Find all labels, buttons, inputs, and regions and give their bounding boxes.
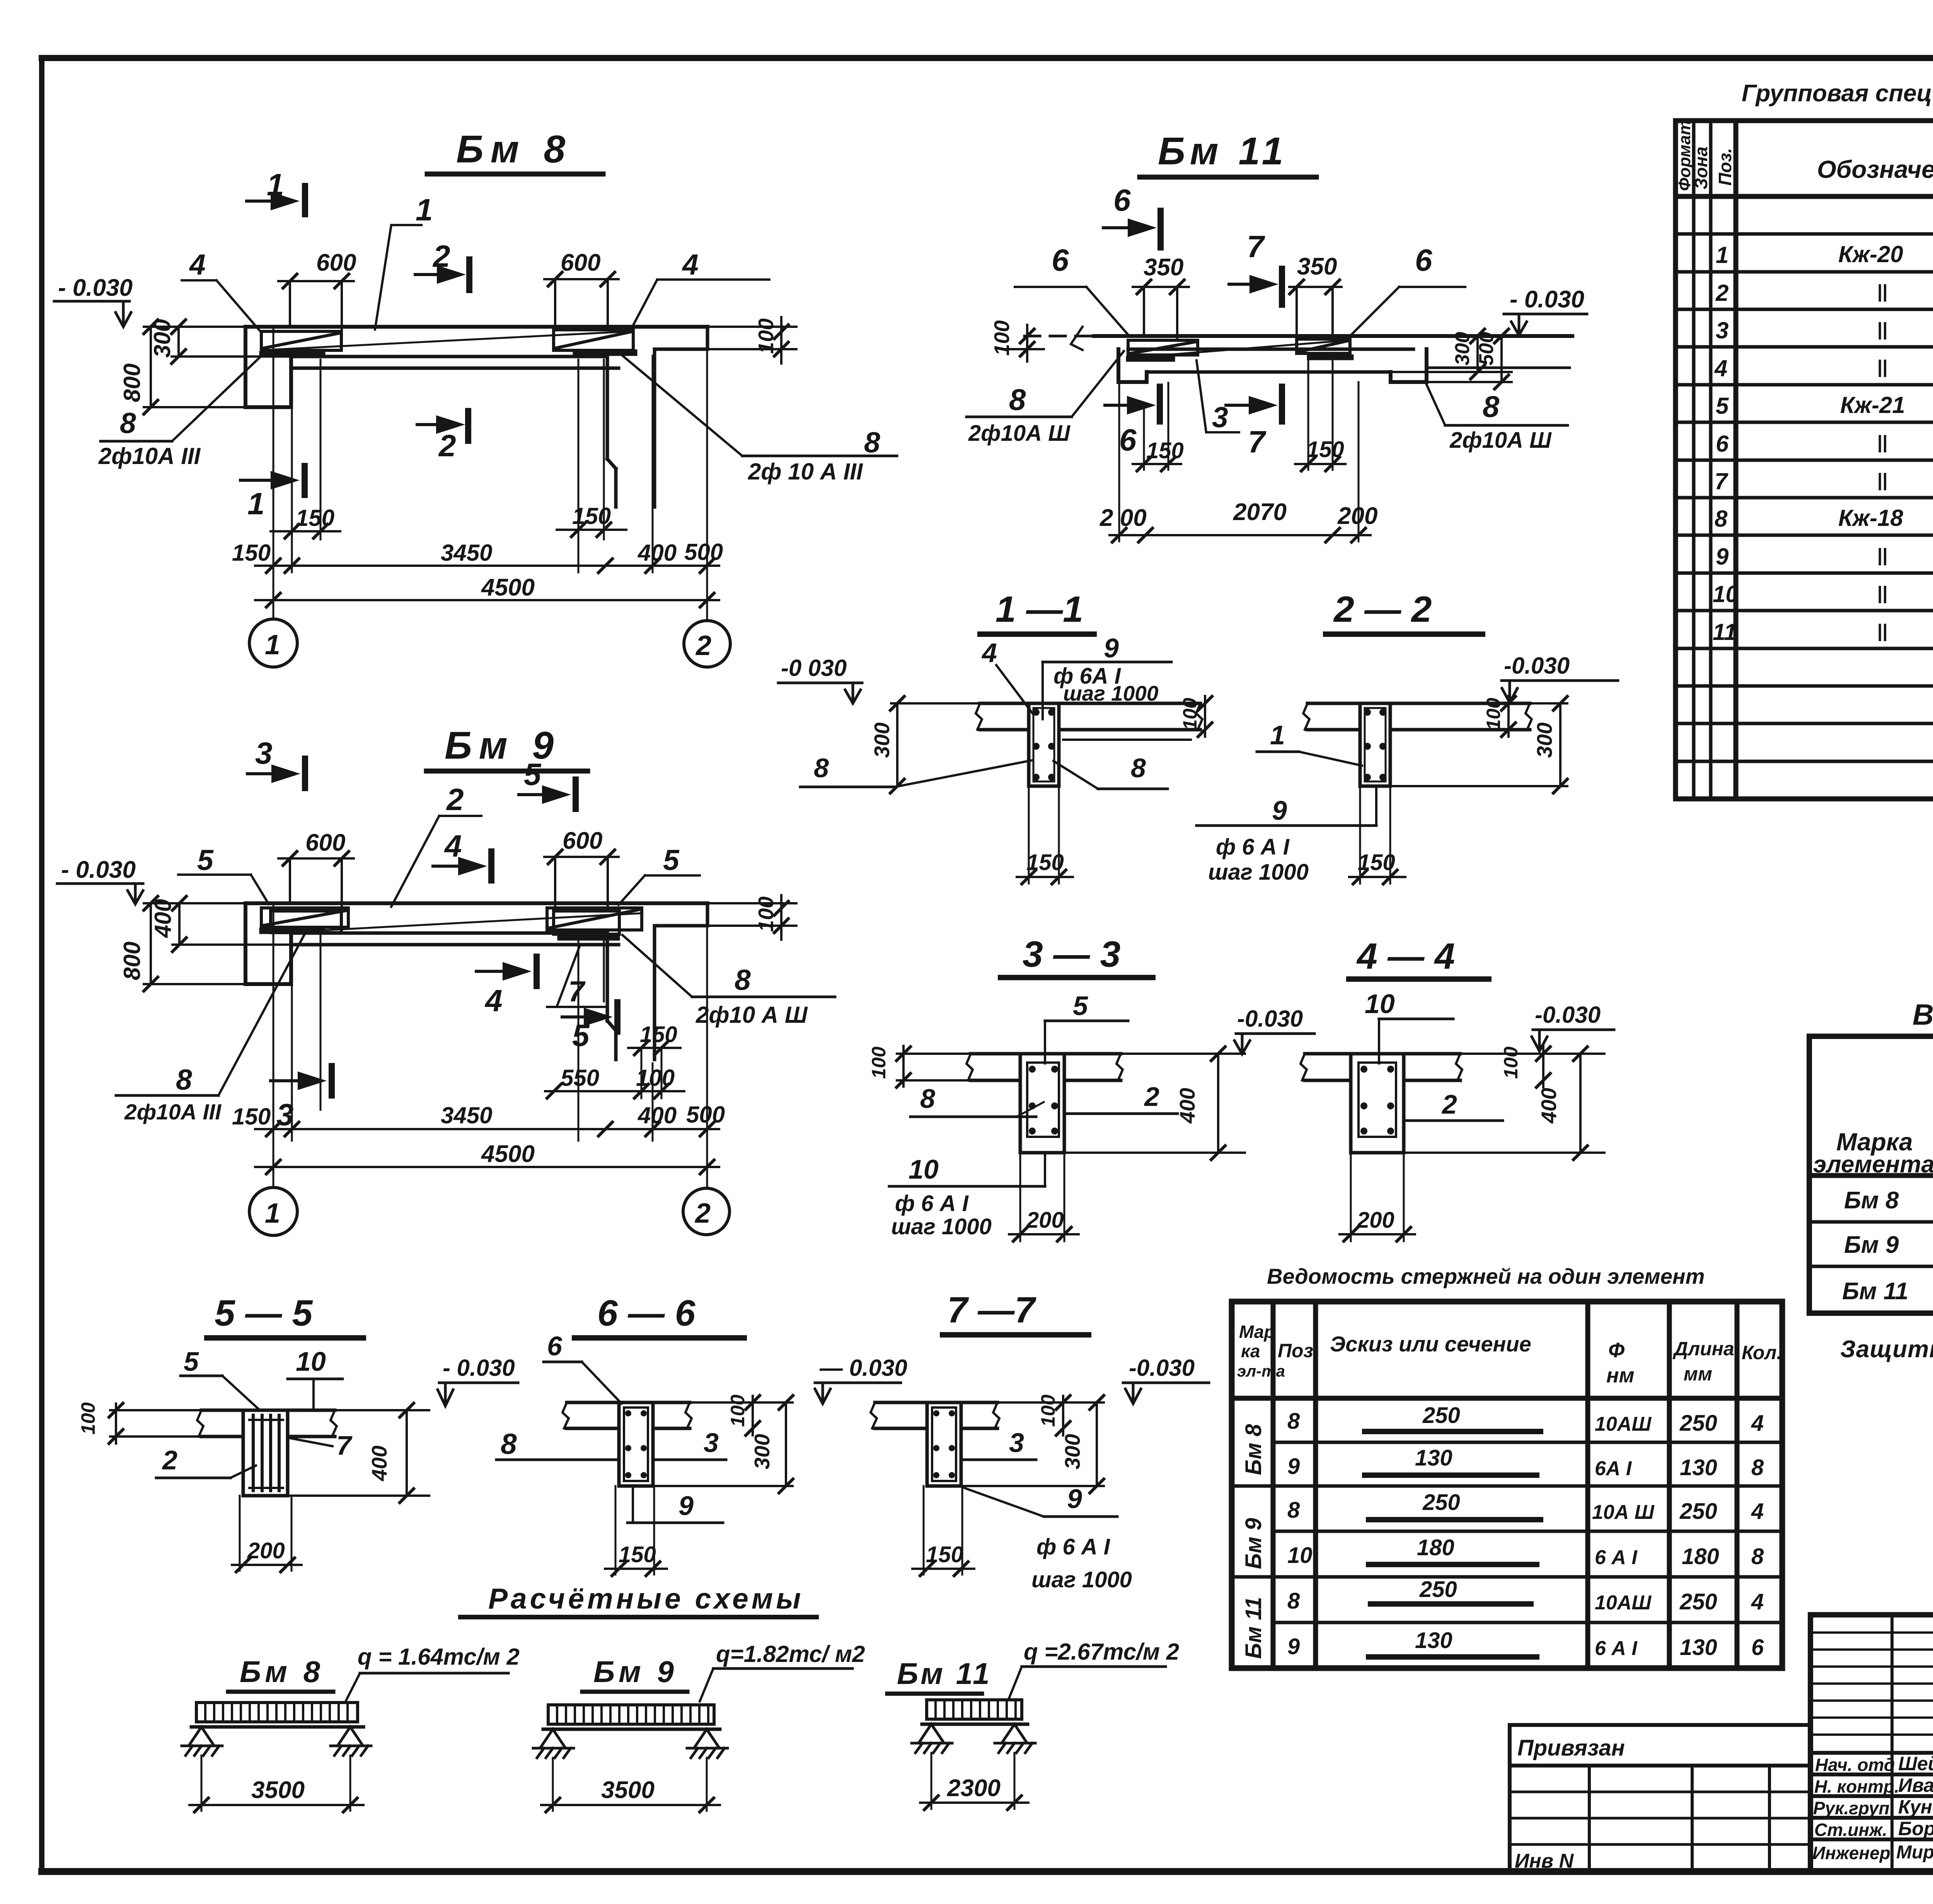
svg-text:3 — 3: 3 — 3 [1023, 934, 1120, 975]
title block texts [1812, 1629, 1933, 1877]
steel table header texts [1813, 1037, 1933, 1178]
svg-text:180: 180 [1682, 1544, 1719, 1569]
beam Bm9 section mark 4 top [433, 829, 491, 880]
svg-text:Рук.груп: Рук.груп [1813, 1798, 1890, 1818]
svg-text:8: 8 [920, 1083, 935, 1114]
section 4-4 dim 100 rotated [1500, 1046, 1550, 1087]
beam Bm8 dim 800 left rotated [119, 320, 245, 414]
svg-text:8: 8 [864, 426, 880, 459]
svg-text:5: 5 [524, 757, 542, 792]
section 5-5 dim 400 rotated [288, 1403, 429, 1503]
scheme Bm11 hatched bar [922, 1700, 1028, 1724]
section 1-1 label 8 left [800, 753, 1033, 787]
section 7-7 rebar dots [933, 1410, 955, 1478]
svg-text:2: 2 [694, 1198, 711, 1229]
svg-text:||: || [1877, 357, 1887, 377]
svg-text:6А I: 6А I [1595, 1457, 1632, 1480]
svg-text:200: 200 [1357, 1208, 1394, 1233]
svg-text:10: 10 [1287, 1543, 1313, 1568]
svg-text:2: 2 [1715, 280, 1728, 306]
svg-text:ф 6 А I: ф 6 А I [1036, 1534, 1111, 1559]
section 2-2 label 1 [1257, 720, 1362, 766]
svg-text:8: 8 [1483, 389, 1500, 423]
svg-text:100: 100 [990, 320, 1014, 356]
svg-text:400: 400 [1537, 1088, 1561, 1124]
svg-text:250: 250 [1419, 1577, 1457, 1602]
svg-text:2ф10 А Ш: 2ф10 А Ш [695, 1002, 808, 1028]
svg-text:Кж-21: Кж-21 [1840, 392, 1905, 418]
beam Bm8 elevation mark -0.030 [54, 275, 133, 327]
section 1-1 label 4 [981, 638, 1033, 713]
svg-text:11: 11 [1713, 619, 1737, 645]
svg-text:150: 150 [572, 503, 611, 529]
svg-text:100: 100 [1483, 698, 1504, 730]
svg-text:Ведомость стержней на один эле: Ведомость стержней на один элемент [1267, 1264, 1705, 1288]
section 1-1 dim 100 rotated right [1179, 696, 1212, 737]
beam Bm11 title underline [1140, 175, 1316, 180]
beam Bm11 left break mark [1071, 327, 1082, 350]
svg-text:250: 250 [1679, 1411, 1717, 1436]
svg-text:Бм 11: Бм 11 [1158, 130, 1288, 173]
beam Bm9 axis circle 2 [683, 1188, 730, 1235]
scheme Bm8 right support [331, 1727, 371, 1756]
beam Bm11 label 6 left [1015, 243, 1129, 336]
beam Bm8 section mark 2 top [415, 239, 469, 290]
beam Bm9 thick bar right [561, 934, 617, 941]
beam Bm11 left support block [1118, 349, 1147, 382]
beam Bm9 dim 150 small right [628, 1022, 680, 1055]
beam Bm8 label 4 left [182, 248, 261, 333]
beam Bm11 section mark 7 top [1229, 229, 1282, 305]
section 2-2 dim 300 rotated [1390, 696, 1567, 793]
svg-text:6: 6 [1113, 183, 1131, 217]
svg-text:8: 8 [1131, 753, 1146, 783]
svg-text:9: 9 [1104, 633, 1119, 663]
svg-text:9: 9 [1287, 1634, 1300, 1659]
svg-text:10АШ: 10АШ [1595, 1413, 1652, 1435]
beam Bm9 axis line 1 [273, 903, 274, 1187]
svg-text:400: 400 [367, 1445, 391, 1481]
svg-text:Бм 9: Бм 9 [593, 1655, 678, 1689]
section 4-4 rebar dots [1360, 1066, 1394, 1135]
svg-text:9: 9 [1716, 544, 1729, 570]
svg-text:100: 100 [77, 1402, 99, 1435]
svg-text:8: 8 [1009, 382, 1026, 416]
beam Bm11 label 8 2f10AIII left [966, 351, 1124, 446]
section 3-3 dim 200 [1009, 1153, 1079, 1241]
svg-text:ф 6 А I: ф 6 А I [895, 1191, 969, 1216]
section 1-1 slab [976, 703, 1202, 740]
svg-text:1: 1 [1716, 242, 1728, 268]
section 3-3 label 10 f6AI shag1000 [889, 1153, 1045, 1239]
svg-text:4 — 4: 4 — 4 [1356, 936, 1455, 977]
svg-text:2ф10А III: 2ф10А III [98, 443, 201, 469]
svg-text:9: 9 [1067, 1484, 1082, 1514]
svg-text:2 00: 2 00 [1099, 505, 1147, 531]
rod list marka rotated labels [1241, 1424, 1266, 1659]
scheme Bm9 dim 3500 [541, 1758, 720, 1812]
section 6-6 elevation -0.030 [815, 1355, 907, 1404]
svg-text:8: 8 [814, 753, 829, 783]
beam Bm8 section mark 1 top [247, 167, 305, 214]
svg-text:130: 130 [1680, 1455, 1717, 1480]
beam Bm11 long diagonal [1131, 340, 1348, 358]
svg-text:2: 2 [446, 782, 464, 817]
scheme Bm11 title [887, 1657, 992, 1694]
section 2-2 dim 100 rotated [1483, 696, 1515, 737]
svg-text:||: || [1877, 545, 1887, 566]
beam Bm8 thick bar left [263, 351, 322, 358]
svg-text:3: 3 [1009, 1428, 1024, 1458]
svg-text:8: 8 [120, 407, 136, 439]
beam Bm8 extension lines bottom [292, 356, 653, 572]
svg-text:8: 8 [1287, 1588, 1300, 1614]
svg-text:10АШ: 10АШ [1595, 1592, 1652, 1614]
beam Bm9 right wall and overhang [607, 903, 707, 1059]
svg-text:Нач. отд: Нач. отд [1815, 1755, 1895, 1775]
beam Bm8 dim 150 small right [557, 503, 626, 537]
svg-text:1: 1 [265, 1198, 280, 1229]
svg-text:130: 130 [1415, 1628, 1452, 1653]
section 5-5 label 10 [288, 1346, 343, 1409]
svg-text:||: || [1877, 319, 1887, 340]
svg-text:2: 2 [438, 428, 456, 463]
svg-text:7: 7 [1248, 425, 1267, 459]
section 2-2 rebar dots [1364, 709, 1386, 781]
svg-text:||: || [1877, 583, 1887, 604]
svg-text:6: 6 [1751, 1635, 1764, 1660]
svg-text:ка: ка [1241, 1341, 1260, 1361]
beam Bm11 section mark 6 bottom [1105, 387, 1160, 457]
beam Bm8 long diagonal [267, 331, 630, 350]
scheme Bm8 title [228, 1655, 333, 1692]
svg-text:Ст.инж.: Ст.инж. [1814, 1820, 1887, 1840]
svg-text:шаг 1000: шаг 1000 [1031, 1567, 1132, 1592]
svg-text:800: 800 [119, 942, 145, 980]
beam Bm11 dim 150 left [1133, 383, 1184, 471]
svg-text:500: 500 [684, 539, 723, 565]
section 4-4 dim 200 [1340, 1153, 1415, 1241]
beam Bm11 right support block [1391, 349, 1427, 382]
signature rows [1810, 1773, 1933, 1776]
svg-text:ф 6 А I: ф 6 А I [1216, 834, 1290, 860]
beam Bm8 dim 100 right rotated [657, 317, 796, 363]
section 5-5 label 2 [156, 1445, 256, 1478]
scheme Bm8 load label [346, 1644, 520, 1701]
svg-text:6: 6 [1415, 243, 1432, 277]
svg-text:6: 6 [1716, 431, 1729, 457]
svg-text:Бм 9: Бм 9 [445, 724, 561, 767]
beam Bm8 dim chain 150 3450 400 500 [232, 539, 723, 573]
svg-text:4: 4 [1751, 1499, 1764, 1524]
svg-text:q =2.67тс/м 2: q =2.67тс/м 2 [1024, 1639, 1179, 1665]
beam Bm11 slab top dashed extension [1024, 335, 1094, 338]
beam Bm11 dim 350 left [1133, 254, 1189, 340]
svg-text:Ф: Ф [1608, 1339, 1624, 1362]
svg-text:Бм 8: Бм 8 [1241, 1424, 1266, 1475]
svg-text:1 —1: 1 —1 [995, 589, 1083, 630]
svg-text:Поз.: Поз. [1715, 148, 1735, 186]
svg-text:100: 100 [1500, 1046, 1522, 1079]
svg-text:Иванов: Иванов [1898, 1774, 1933, 1796]
svg-text:7 —7: 7 —7 [947, 1290, 1036, 1331]
beam Bm8 dim 300 left rotated [149, 319, 291, 363]
privyazan box [1510, 1725, 1810, 1872]
svg-text:150: 150 [296, 505, 334, 531]
beam Bm9 section mark 5 bottom [562, 1002, 617, 1053]
svg-text:130: 130 [1680, 1635, 1717, 1660]
svg-text:5 — 5: 5 — 5 [215, 1293, 313, 1334]
beam Bm9 dim 4500 [255, 1141, 719, 1174]
section 1-1 label 9 f6AI shag1000 [1043, 633, 1171, 719]
svg-text:300: 300 [1451, 332, 1474, 365]
beam Bm11 right reinf box [1297, 339, 1350, 353]
beam Bm9 dim chain 150 3450 400 500 [232, 1102, 725, 1136]
svg-text:6: 6 [547, 1331, 563, 1361]
beam Bm9 extension lines bottom [292, 936, 653, 1141]
svg-text:8: 8 [1287, 1409, 1300, 1434]
beam Bm9 leader 2 to slab [391, 782, 481, 907]
beam Bm8 dim 600 left [278, 249, 356, 331]
svg-text:Мирошникова: Мирошникова [1896, 1842, 1933, 1863]
scheme Bm8 left support [182, 1727, 222, 1756]
svg-text:400: 400 [150, 899, 176, 938]
beam Bm11 leader 3 [1197, 360, 1239, 433]
svg-text:800: 800 [119, 363, 145, 402]
scheme Bm9 right support [687, 1729, 728, 1758]
svg-text:-0.030: -0.030 [1504, 653, 1570, 679]
section 1-1 rebar dots [1033, 709, 1055, 781]
svg-text:100: 100 [1179, 698, 1201, 730]
beam Bm9 slab bottom line [291, 932, 607, 935]
section 1-1 dim 300 rotated [870, 696, 980, 793]
svg-text:100: 100 [868, 1046, 890, 1079]
beam Bm8 left reinf box [261, 331, 341, 350]
section 4-4 elevation -0.030 [1532, 1002, 1614, 1051]
svg-text:Боровик: Боровик [1898, 1818, 1933, 1839]
scheme Bm11 dim 2300 [920, 1753, 1028, 1810]
svg-text:Бм 11: Бм 11 [1241, 1597, 1266, 1659]
section 6-6 rib [619, 1402, 653, 1486]
svg-text:200: 200 [247, 1538, 285, 1563]
svg-text:3450: 3450 [441, 540, 492, 566]
signature column verticals [1890, 1615, 1894, 1872]
svg-text:2: 2 [1144, 1082, 1159, 1112]
svg-text:- 0.030: - 0.030 [443, 1355, 515, 1381]
rod list data rows [1287, 1403, 1764, 1660]
svg-text:Н. контр.: Н. контр. [1814, 1776, 1899, 1797]
section 3-3 slab [966, 1054, 1123, 1080]
svg-text:8: 8 [1715, 506, 1728, 532]
svg-text:9: 9 [1287, 1454, 1300, 1479]
svg-text:-0 030: -0 030 [781, 655, 847, 681]
beam Bm8 section mark 1 bottom [240, 466, 305, 521]
section 5-5 dim 200 [232, 1496, 302, 1572]
svg-text:6: 6 [1052, 243, 1069, 277]
svg-text:||: || [1877, 282, 1887, 302]
svg-text:600: 600 [561, 249, 600, 276]
svg-text:4: 4 [484, 983, 503, 1018]
section 3-3 dim 400 rotated [1064, 1047, 1245, 1160]
section 7-7 title [943, 1290, 1089, 1335]
beam Bm9 slab top line [245, 901, 707, 905]
section 3-3 elevation -0.030 [1234, 1006, 1314, 1054]
section 5-5 dim 100 rotated left [77, 1402, 201, 1443]
svg-text:Кж-20: Кж-20 [1838, 241, 1903, 267]
svg-text:2ф10А Ш: 2ф10А Ш [1449, 428, 1552, 453]
section 1-1 dim 150 [1017, 786, 1073, 884]
scheme Bm11 right support [995, 1724, 1035, 1753]
svg-text:2070: 2070 [1233, 499, 1287, 525]
svg-text:300: 300 [149, 319, 175, 358]
beam Bm9 section mark 3 bottom [271, 1066, 332, 1132]
section 5-5 vertical bars in rib [249, 1415, 283, 1491]
section 4-4 dim 400 rotated [1404, 1047, 1604, 1160]
svg-text:7: 7 [568, 975, 586, 1008]
svg-text:180: 180 [1417, 1535, 1454, 1560]
svg-text:Бм 9: Бм 9 [1241, 1518, 1266, 1569]
svg-text:нм: нм [1606, 1364, 1635, 1387]
beam Bm8 axis line 2 [706, 349, 708, 619]
section 3-3 rebar dots [1029, 1066, 1058, 1135]
svg-text:10А Ш: 10А Ш [1592, 1501, 1655, 1524]
section 2-2 label 9 f6AI shag1000 [1197, 787, 1376, 885]
svg-text:Бм 8: Бм 8 [456, 128, 572, 171]
scheme Bm9 left support [533, 1729, 574, 1758]
scheme Bm8 hatched bar [191, 1703, 363, 1727]
svg-text:1: 1 [265, 630, 280, 660]
svg-text:150: 150 [232, 1104, 271, 1129]
beam Bm11 section mark 6 top [1103, 183, 1161, 247]
beam Bm11 dim chain 200 2070 200 [1099, 382, 1377, 542]
svg-text:600: 600 [563, 827, 602, 854]
section 2-2 dim 150 [1349, 786, 1405, 884]
scheme Bm11 left support [912, 1724, 952, 1753]
beam Bm8 beam soffit line [295, 367, 619, 370]
beam Bm9 label 8 2f10AIII left [116, 933, 305, 1124]
svg-text:2ф10А III: 2ф10А III [124, 1100, 222, 1124]
section 6-6 slab [563, 1402, 692, 1428]
svg-text:6: 6 [1119, 423, 1137, 457]
section 3-3 title [1001, 934, 1153, 978]
svg-text:Инженер: Инженер [1812, 1843, 1890, 1863]
svg-text:Длина: Длина [1672, 1338, 1734, 1360]
beam Bm9 thick bar left [263, 928, 322, 934]
beam Bm8 dim 4500 [255, 574, 719, 607]
beam Bm11 section mark 7 bottom [1226, 387, 1282, 459]
beam Bm8 label 8 2f10AIII left [98, 351, 267, 469]
svg-text:8: 8 [1287, 1498, 1300, 1523]
beam Bm11 left reinf box [1128, 340, 1198, 355]
beam Bm9 dim 550 100 [545, 1048, 684, 1098]
svg-text:3500: 3500 [601, 1777, 655, 1803]
beam Bm9 label 5 right [619, 844, 700, 905]
thin revision rows [1810, 1631, 1933, 1634]
svg-text:2: 2 [695, 630, 711, 661]
svg-text:10: 10 [1365, 989, 1395, 1019]
svg-text:200: 200 [1026, 1208, 1064, 1233]
section 1-1 rib [1029, 703, 1059, 786]
svg-text:8: 8 [176, 1063, 192, 1096]
beam Bm9 right reinf box [547, 908, 642, 934]
svg-text:Бм 9: Бм 9 [1844, 1232, 1899, 1258]
svg-text:Привязан: Привязан [1517, 1735, 1625, 1761]
svg-text:3: 3 [255, 736, 273, 770]
svg-text:Групповая спецификация для мон: Групповая спецификация для монолитных эл… [1742, 80, 1933, 107]
svg-text:300: 300 [870, 722, 894, 758]
svg-text:3: 3 [704, 1428, 719, 1458]
svg-text:350: 350 [1297, 253, 1337, 280]
svg-text:1: 1 [416, 193, 433, 227]
beam Bm9 label 7 [547, 945, 605, 1008]
beam Bm8 right wall and overhang [607, 327, 707, 507]
section 4-4 rib [1351, 1054, 1404, 1153]
svg-text:2: 2 [1441, 1089, 1457, 1119]
section 6-6 label 9 [627, 1487, 723, 1523]
section 5-5 rib [243, 1410, 288, 1496]
svg-text:5: 5 [663, 844, 680, 876]
section 7-7 rib [927, 1402, 961, 1486]
svg-text:-0.030: -0.030 [1237, 1006, 1303, 1032]
svg-text:3: 3 [276, 1097, 294, 1132]
section 6-6 rebar dots [625, 1410, 647, 1478]
svg-text:550: 550 [561, 1065, 599, 1091]
svg-text:8: 8 [735, 964, 751, 996]
svg-text:Бм 11: Бм 11 [897, 1657, 992, 1691]
section 4-4 label 2 [1404, 1089, 1503, 1121]
svg-text:2: 2 [162, 1445, 177, 1475]
beam Bm8 axis circle 2 [684, 621, 730, 667]
section 3-3 dim 100 rotated left [868, 1046, 971, 1087]
section 6-6 label 6 [544, 1331, 622, 1404]
section 5-5 slab [197, 1410, 337, 1437]
svg-text:3500: 3500 [251, 1777, 305, 1803]
beam Bm8 dim 150 small left [271, 505, 340, 538]
svg-text:5: 5 [184, 1346, 199, 1377]
svg-text:7: 7 [1715, 468, 1728, 494]
svg-text:2300: 2300 [947, 1775, 1001, 1802]
beam Bm11 elevation mark -0.030 [1504, 286, 1587, 335]
svg-text:Шейко: Шейко [1898, 1753, 1933, 1774]
section 7-7 dims 100 300 rotated [961, 1394, 1104, 1493]
scheme Bm8 dim 3500 [189, 1756, 363, 1812]
svg-text:6 А I: 6 А I [1595, 1546, 1638, 1569]
spec table rows content [1713, 206, 1933, 721]
beam Bm9 dim 400 left rotated [150, 896, 295, 952]
beam Bm8 right reinf box [554, 330, 633, 350]
beam Bm8 axis line 1 [273, 327, 274, 619]
svg-text:1: 1 [247, 486, 265, 521]
beam Bm9 dim 100 right rotated [657, 895, 796, 940]
svg-text:4: 4 [682, 248, 699, 281]
beam Bm11 thick bar right [1310, 355, 1351, 360]
svg-text:6 А I: 6 А I [1595, 1637, 1638, 1660]
svg-text:4: 4 [1714, 355, 1727, 381]
svg-text:q = 1.64тс/м 2: q = 1.64тс/м 2 [358, 1644, 520, 1670]
svg-text:эл-та: эл-та [1237, 1362, 1285, 1380]
svg-text:элемента: элемента [1813, 1151, 1933, 1178]
beam Bm11 thick bar left [1129, 356, 1172, 362]
svg-text:Зона: Зона [1691, 147, 1711, 189]
svg-text:600: 600 [305, 829, 345, 856]
section 5-5 label 5 [181, 1346, 259, 1409]
section 7-7 label 3 [961, 1428, 1036, 1460]
beam Bm9 section mark 5 top [519, 757, 576, 809]
svg-text:Бм 8: Бм 8 [1844, 1187, 1899, 1214]
beam Bm9 beam soffit line [295, 943, 619, 947]
beam Bm9 left wall [245, 903, 291, 984]
svg-text:Бм 11: Бм 11 [1842, 1278, 1908, 1305]
